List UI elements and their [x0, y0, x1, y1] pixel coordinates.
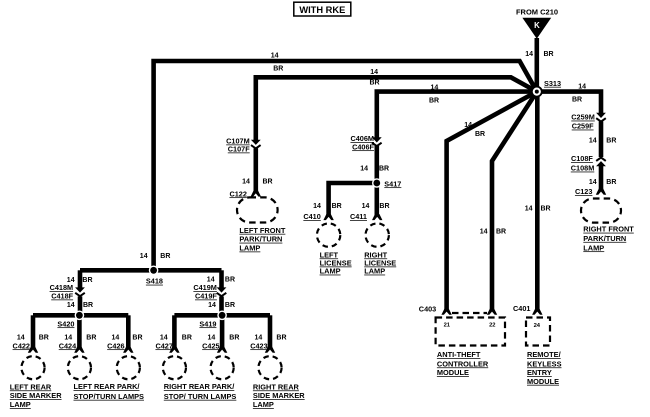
svg-text:REMOTE/: REMOTE/: [527, 350, 561, 359]
svg-text:BR: BR: [572, 97, 582, 104]
svg-text:BR: BR: [370, 80, 380, 87]
svg-text:LEFT FRONT: LEFT FRONT: [239, 226, 285, 235]
svg-text:WITH RKE: WITH RKE: [299, 5, 345, 15]
svg-text:PARK/TURN: PARK/TURN: [583, 234, 626, 243]
svg-text:14: 14: [271, 52, 279, 59]
lamp: left rear park/stop/turn C424: [68, 356, 91, 379]
wire: C419 connector to S419: [219, 296, 224, 315]
module entry feet C403 pin 22: [487, 309, 497, 315]
module: remote/keyless entry: [526, 318, 562, 386]
svg-text:BR: BR: [276, 335, 286, 342]
wire: drop to C423 lamp: [268, 315, 273, 348]
wire: C418 connector to S420: [78, 296, 83, 315]
svg-text:C259M: C259M: [571, 113, 595, 122]
svg-text:C418F: C418F: [51, 292, 73, 301]
lamp: right front park/turn: [581, 199, 634, 253]
svg-text:14: 14: [313, 203, 321, 210]
svg-text:BR: BR: [541, 206, 551, 213]
wire: C259 connector to C108 connector: [599, 122, 604, 158]
svg-text:LAMP: LAMP: [239, 244, 260, 253]
svg-text:S419: S419: [199, 319, 216, 328]
svg-text:BR: BR: [273, 66, 283, 73]
svg-text:C123: C123: [575, 187, 592, 196]
module entry feet C403 pin 21: [441, 309, 451, 315]
wire: S417 horizontal to C410: [329, 183, 377, 215]
svg-text:22: 22: [489, 323, 495, 329]
svg-text:14: 14: [362, 203, 370, 210]
svg-text:STOP/ TURN LAMPS: STOP/ TURN LAMPS: [164, 392, 237, 401]
svg-text:C425: C425: [202, 341, 219, 350]
wire: S313 second bus to C107 connector: [256, 77, 537, 140]
inline connector C107M/C107F: [226, 137, 261, 154]
wire: C107 connector to left front lamp C122: [254, 148, 259, 191]
wire: drop to C422 lamp: [31, 315, 36, 348]
connector from C210: [516, 7, 558, 38]
wire: drop to C427 lamp: [172, 315, 177, 348]
lamp: right rear park/stop/turn C427: [163, 356, 186, 379]
inline connector C108F/C108M: [571, 154, 606, 173]
wire: S313 diagonal to C403 pin 22: [492, 92, 537, 311]
svg-text:C122: C122: [229, 189, 246, 198]
svg-text:PARK/TURN: PARK/TURN: [239, 235, 282, 244]
svg-text:K: K: [534, 21, 540, 30]
wire: S419 horizontal bus: [174, 313, 270, 318]
lamp entry feet C426: [123, 347, 133, 353]
svg-text:BR: BR: [496, 229, 506, 236]
svg-text:C410: C410: [303, 212, 320, 221]
svg-text:BR: BR: [544, 51, 554, 58]
svg-text:BR: BR: [83, 302, 93, 309]
svg-text:C423: C423: [250, 341, 267, 350]
splice S420: [57, 311, 84, 329]
svg-text:BR: BR: [379, 203, 389, 210]
wire: drop to C426 lamp: [126, 315, 131, 348]
svg-text:BR: BR: [606, 138, 616, 145]
inline connector C419M/C419F: [193, 283, 226, 301]
svg-text:C108F: C108F: [571, 154, 593, 163]
svg-text:S418: S418: [146, 277, 163, 286]
svg-text:BR: BR: [379, 165, 389, 172]
svg-text:LAMP: LAMP: [364, 267, 385, 276]
svg-text:14: 14: [242, 179, 250, 186]
splice S417: [372, 178, 401, 188]
svg-text:14: 14: [589, 138, 597, 145]
svg-text:SIDE MARKER: SIDE MARKER: [253, 391, 305, 400]
svg-text:14: 14: [578, 84, 586, 91]
svg-text:RIGHT REAR PARK/: RIGHT REAR PARK/: [164, 382, 235, 391]
svg-text:C427: C427: [155, 341, 172, 350]
inline connector C418M/C418F: [50, 283, 85, 301]
svg-text:C259F: C259F: [572, 122, 594, 131]
svg-text:S313: S313: [544, 79, 561, 88]
svg-text:CONTROLLER: CONTROLLER: [437, 359, 489, 368]
wire: drop to C424 lamp: [77, 315, 82, 348]
wire: S313 top-left bus down to S418: [154, 61, 537, 270]
svg-text:BR: BR: [160, 253, 170, 260]
lamp entry feet C424: [74, 347, 84, 353]
wire: S418 down to C418 connector: [78, 270, 83, 288]
svg-text:BR: BR: [39, 335, 49, 342]
wire: S420 horizontal bus: [33, 313, 128, 318]
lamp: left rear side marker: [10, 356, 62, 409]
svg-text:BR: BR: [182, 335, 192, 342]
svg-text:BR: BR: [225, 277, 235, 284]
svg-text:14: 14: [480, 229, 488, 236]
svg-text:BR: BR: [86, 335, 96, 342]
title box WITH RKE: [294, 2, 351, 16]
lamp entry feet C427: [169, 347, 179, 353]
svg-text:14: 14: [360, 165, 368, 172]
splice S418: [146, 266, 163, 286]
svg-text:MODULE: MODULE: [527, 377, 559, 386]
svg-text:21: 21: [444, 323, 451, 329]
wire: S313 diagonal to C403 pin 21: [447, 92, 537, 311]
svg-text:C419F: C419F: [195, 292, 217, 301]
lamp entry feet C425: [217, 347, 227, 353]
wire: triangle K to S313: [534, 38, 539, 92]
svg-text:14: 14: [208, 302, 216, 309]
lamp: right rear park/stop/turn C425: [164, 356, 237, 401]
svg-text:S417: S417: [384, 179, 401, 188]
wire: C406 connector to splice S417: [374, 146, 379, 183]
svg-text:LAMP: LAMP: [10, 400, 31, 409]
svg-text:SIDE MARKER: SIDE MARKER: [10, 391, 62, 400]
svg-text:14: 14: [370, 69, 378, 76]
svg-text:14: 14: [431, 84, 439, 91]
svg-text:C411: C411: [350, 212, 367, 221]
svg-text:C424: C424: [59, 341, 77, 350]
svg-text:C401: C401: [513, 304, 530, 313]
lamp entry feet C123: [596, 189, 606, 195]
svg-text:LAMP: LAMP: [583, 243, 604, 252]
svg-text:14: 14: [67, 302, 75, 309]
svg-text:C403: C403: [419, 305, 436, 314]
lamp entry feet C410: [323, 214, 333, 220]
wire: C108 connector to right front lamp C123: [599, 166, 604, 190]
lamp: left front park/turn: [237, 197, 286, 252]
svg-text:STOP/TURN LAMPS: STOP/TURN LAMPS: [74, 392, 145, 401]
svg-text:14: 14: [525, 206, 533, 213]
svg-text:LAMP: LAMP: [320, 267, 341, 276]
svg-text:C422: C422: [13, 341, 30, 350]
svg-text:14: 14: [464, 122, 472, 129]
svg-text:BR: BR: [429, 97, 439, 104]
svg-text:KEYLESS: KEYLESS: [527, 359, 562, 368]
inline connector C259M/C259F: [571, 113, 606, 131]
svg-text:14: 14: [140, 253, 148, 260]
lamp: right rear side marker: [253, 356, 305, 409]
svg-text:LAMP: LAMP: [253, 400, 274, 409]
svg-text:C108M: C108M: [571, 164, 595, 173]
wire: S418 horizontal bus: [80, 268, 222, 273]
wire: drop to C425 lamp: [220, 315, 225, 348]
lamp: left license: [317, 223, 352, 275]
svg-text:C107F: C107F: [228, 145, 250, 154]
lamp entry feet C411: [372, 214, 382, 220]
svg-text:BR: BR: [606, 179, 616, 186]
svg-text:BR: BR: [263, 179, 273, 186]
module: anti-theft controller: [436, 318, 505, 378]
svg-text:BR: BR: [132, 335, 142, 342]
splice S313: [532, 79, 561, 97]
svg-text:24: 24: [534, 323, 541, 329]
wire: S313 left to C406 connector: [377, 92, 537, 138]
lamp: left rear park/stop/turn C426: [74, 356, 145, 401]
svg-text:RIGHT FRONT: RIGHT FRONT: [583, 225, 634, 234]
svg-text:14: 14: [525, 51, 533, 58]
svg-text:C406F: C406F: [352, 142, 374, 151]
connector C403 dashed link between pins: [452, 312, 487, 314]
wire: S313 down to C401 pin 24: [535, 92, 540, 311]
lamp: right license: [364, 223, 396, 275]
module entry feet C401 pin 24: [532, 309, 542, 315]
lamp entry feet C423: [265, 347, 275, 353]
svg-text:BR: BR: [332, 203, 342, 210]
svg-text:MODULE: MODULE: [437, 368, 469, 377]
wire: S313 right to C259 connector: [537, 92, 601, 114]
svg-text:BR: BR: [82, 277, 92, 284]
lamp entry feet C422: [28, 347, 38, 353]
svg-text:C426: C426: [107, 341, 124, 350]
svg-text:BR: BR: [229, 335, 239, 342]
svg-text:14: 14: [589, 179, 597, 186]
svg-text:BR: BR: [475, 131, 485, 138]
inline connector C406M/C406F: [350, 134, 381, 151]
wire: S417 down to C411: [374, 183, 379, 215]
svg-text:ANTI-THEFT: ANTI-THEFT: [437, 350, 481, 359]
svg-text:LEFT REAR PARK/: LEFT REAR PARK/: [74, 382, 140, 391]
splice S419: [199, 311, 227, 329]
lamp entry feet C122: [251, 191, 261, 197]
wire: S418 down to C419 connector: [219, 270, 224, 288]
svg-text:S420: S420: [57, 319, 74, 328]
svg-text:FROM C210: FROM C210: [516, 7, 558, 16]
svg-text:BR: BR: [225, 302, 235, 309]
